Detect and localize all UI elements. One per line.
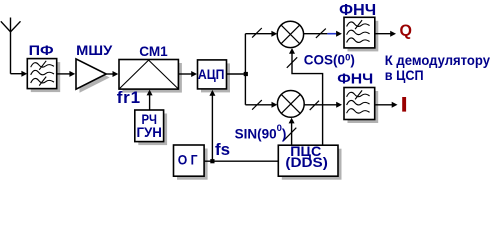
wire branch vertical (244, 34, 246, 105)
mixer U2 cross (281, 25, 300, 44)
DDS block PCS shadow (282, 149, 342, 180)
wire DDS sin to bottom mixer (291, 123, 293, 146)
reference oscillator OG shadow (177, 149, 208, 180)
wire top mixer to LPF (304, 33, 328, 35)
wire DDS cos to top mixer (292, 53, 323, 145)
wire LPF2 to I (375, 104, 393, 106)
bandpass filter PF shadow (31, 62, 60, 92)
wire LNA to SM1 (106, 73, 113, 75)
RF VCO block (135, 110, 164, 142)
wire PF to LNA (57, 73, 71, 75)
svg-text:fr1: fr1 (117, 88, 141, 107)
PF wave bottom (crossed) (31, 77, 54, 86)
wire VCO to SM1 (149, 94, 151, 109)
wire bottom mixer to LPF2 (304, 104, 337, 106)
bus slash top lpf (316, 29, 326, 38)
FNC2 wave bottom (347, 109, 370, 114)
bandpass filter PF (27, 59, 56, 89)
bus slash bottom lpf (310, 101, 319, 110)
svg-text:ФНЧ: ФНЧ (339, 2, 376, 19)
mixer U2 top circle (277, 21, 303, 47)
wire blue segment (327, 33, 336, 35)
bus slash top branch (252, 28, 262, 38)
wire SM1 to ADC (178, 73, 192, 75)
node fs junction (210, 159, 214, 163)
bus slash cos (287, 57, 297, 68)
LNA amplifier MSHU (76, 59, 106, 89)
wire LPF1 to Q (375, 33, 391, 35)
wire branch to top mixer (245, 33, 272, 35)
wire ADC to branch node (227, 73, 246, 75)
LPF top block FNC1 (344, 17, 375, 48)
PF wave middle (31, 70, 54, 75)
svg-text:ГУН: ГУН (136, 125, 162, 140)
FNC2 wave middle (347, 100, 370, 105)
mixer U3 cross (281, 94, 300, 113)
wire branch to bottom mixer (245, 104, 272, 106)
bus slash sin (284, 128, 297, 141)
ADC block ACP (198, 60, 227, 89)
svg-text:МШУ: МШУ (76, 42, 112, 58)
SM1 chevron (120, 60, 178, 88)
FNC1 wave bottom (347, 38, 370, 43)
mixer U3 bottom circle (277, 91, 304, 118)
svg-text:О Г: О Г (178, 152, 198, 168)
svg-text:(DDS): (DDS) (285, 154, 328, 170)
antenna W1 (1, 18, 21, 74)
FNC1 wave top (crossed) (347, 20, 370, 29)
svg-text:в ЦСП: в ЦСП (385, 67, 424, 83)
DDS block PCS (278, 145, 338, 176)
mixer SM1 shadow (123, 63, 182, 93)
reference oscillator OG (174, 145, 205, 176)
bus slash bottom branch (252, 100, 262, 110)
wire fs to ADC (211, 95, 213, 162)
label I (402, 97, 406, 112)
FNC1 wave middle (347, 30, 370, 35)
mixer SM1 box (119, 60, 178, 90)
svg-text:АЦП: АЦП (198, 66, 225, 82)
ADC block ACP shadow (201, 63, 230, 92)
FNC2 wave top (crossed) (347, 90, 370, 99)
svg-text:ПФ: ПФ (29, 42, 54, 58)
svg-text:СМ1: СМ1 (139, 43, 168, 59)
RF VCO block shadow (138, 114, 167, 146)
PF wave top (crossed) (31, 61, 54, 70)
LPF top block FNC1 shadow (348, 21, 379, 52)
svg-text:Q: Q (400, 23, 412, 40)
svg-text:ФНЧ: ФНЧ (337, 72, 373, 88)
node branch junction (244, 72, 248, 76)
svg-text:К демодулятору: К демодулятору (385, 52, 490, 68)
svg-text:fs: fs (215, 140, 230, 159)
wire antenna to PF (11, 73, 23, 75)
LNA amplifier MSHU shadow (80, 62, 110, 92)
wire OG to DDS (204, 160, 278, 162)
LPF bottom block FNC2 shadow (348, 91, 379, 123)
LPF bottom block FNC2 (344, 88, 375, 120)
